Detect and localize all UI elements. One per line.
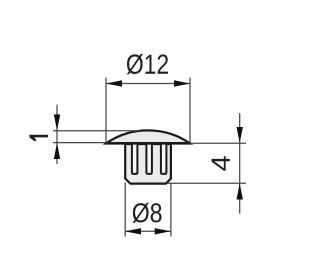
dim 1 label bbox=[30, 135, 49, 141]
dim 4 arrow bottom bbox=[237, 184, 243, 200]
domed cap head bbox=[106, 130, 190, 143]
dim 4 extension line bottom bbox=[168, 182, 247, 184]
dim Ø12 extension line right bbox=[189, 78, 191, 144]
rib slot left bbox=[132, 145, 138, 174]
dim 4 dimension line bbox=[239, 113, 241, 214]
cap head bottom line bbox=[105, 142, 191, 145]
dim Ø8 arrow left bbox=[125, 228, 141, 234]
dim 4 extension line top bbox=[190, 142, 246, 144]
dim 4 label bbox=[211, 156, 229, 171]
dim Ø12 label bbox=[127, 54, 168, 74]
dim 4 arrow top bbox=[237, 127, 243, 143]
dim Ø12 arrow left bbox=[106, 80, 122, 86]
dim 1 extension line top bbox=[53, 130, 140, 132]
shaft body of cap bbox=[125, 144, 171, 184]
dim Ø8 label bbox=[133, 203, 162, 223]
dim Ø12 arrow right bbox=[174, 80, 190, 86]
dim Ø12 dimension line bbox=[106, 83, 190, 85]
dim Ø12 extension line left bbox=[105, 78, 107, 144]
dim Ø8 extension line right bbox=[170, 183, 172, 237]
dim 1 dimension line bbox=[56, 105, 58, 164]
rib slot right bbox=[161, 145, 167, 174]
dim Ø8 arrow right bbox=[155, 228, 171, 234]
rib slot middle bbox=[146, 145, 152, 174]
dim 1 arrow top bbox=[54, 114, 60, 130]
dim Ø8 extension line left bbox=[124, 183, 126, 237]
dim 1 extension line bottom bbox=[53, 142, 106, 144]
dim 1 arrow bottom bbox=[54, 143, 60, 159]
dim Ø8 dimension line bbox=[125, 230, 171, 232]
